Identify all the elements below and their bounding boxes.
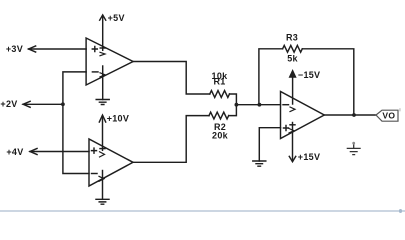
svg-text:+4V: +4V (6, 147, 23, 157)
svg-text:−15V: −15V (298, 70, 320, 80)
svg-text:+10V: +10V (107, 114, 129, 124)
svg-text:+5V: +5V (108, 13, 125, 23)
svg-text:VO: VO (382, 110, 395, 120)
svg-text:+2V: +2V (0, 99, 17, 109)
svg-text:R3: R3 (286, 33, 298, 43)
svg-text:+15V: +15V (298, 152, 320, 162)
svg-text:+3V: +3V (6, 44, 23, 54)
svg-text:5k: 5k (287, 53, 298, 63)
svg-text:20k: 20k (212, 130, 229, 140)
svg-text:R1: R1 (213, 77, 225, 87)
